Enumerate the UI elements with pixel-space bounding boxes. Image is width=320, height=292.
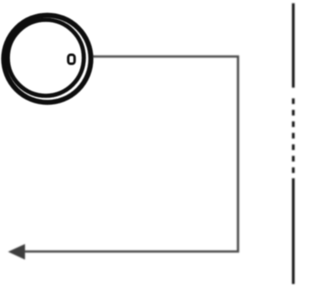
label o xyxy=(68,55,74,64)
right vertical line, top solid segment xyxy=(292,3,295,87)
right vertical line, dashed segment xyxy=(292,98,295,173)
wire xyxy=(22,57,238,252)
right vertical line, bottom solid segment xyxy=(292,178,295,284)
outer circle of machine symbol xyxy=(4,15,91,102)
inner circle of machine symbol xyxy=(8,20,84,96)
arrowhead xyxy=(8,244,25,260)
